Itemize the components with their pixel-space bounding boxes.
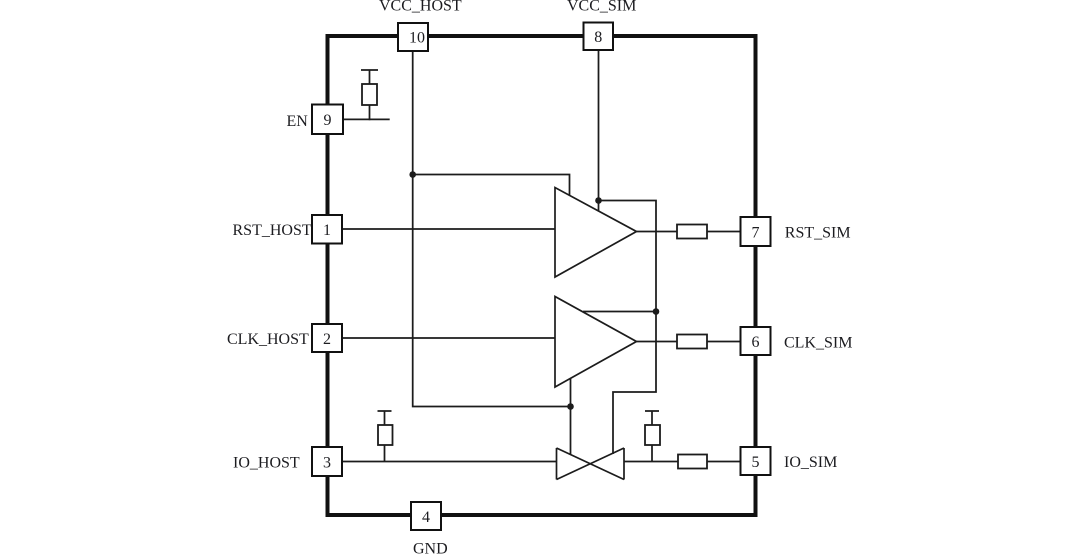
wire resistor R3 to pin 5 [707, 461, 741, 463]
svg-text:5: 5 [752, 454, 760, 471]
supply tee of IO_HOST pull-up [378, 410, 392, 412]
svg-text:IO_SIM: IO_SIM [784, 454, 837, 471]
svg-text:GND: GND [413, 541, 448, 555]
svg-text:8: 8 [594, 29, 602, 46]
wire VCC_HOST branch to buffer U1 top edge [413, 175, 570, 198]
svg-text:EN: EN [287, 113, 309, 130]
svg-text:CLK_HOST: CLK_HOST [227, 331, 309, 348]
resistor IO_HOST pull-up [378, 425, 393, 445]
wire EN pull-up resistor to EN stub [369, 105, 371, 120]
junction dot on VCC_SIM rail at U1 [595, 197, 602, 204]
svg-text:1: 1 [323, 222, 331, 239]
wire IO_HOST pull-up resistor to IO line [384, 445, 386, 462]
junction dot on VCC_SIM branch at U2 [653, 308, 660, 315]
junction dot on VCC_HOST rail [409, 171, 416, 178]
svg-text:RST_HOST: RST_HOST [233, 222, 312, 239]
wire tee to EN pull-up resistor [369, 70, 371, 84]
svg-text:7: 7 [752, 224, 760, 241]
supply tee of EN pull-up [361, 69, 378, 71]
pin 4 box [411, 502, 441, 530]
pin 2 box [312, 324, 342, 352]
pin 6 box [741, 327, 771, 355]
wire VCC_SIM rail from pin 8 down to buffer U1 top edge [598, 49, 600, 211]
wire buffer U1 output to resistor R1 [637, 231, 678, 233]
svg-text:4: 4 [422, 509, 430, 526]
pin 8 box [584, 23, 614, 51]
pin 10 box [398, 23, 428, 51]
wire buffer U2 output to resistor R2 [637, 341, 678, 343]
wire tee to IO_HOST pull-up resistor [384, 411, 386, 425]
svg-text:9: 9 [324, 112, 332, 129]
wire pin 2 to buffer U2 input [342, 337, 555, 339]
wire EN stub from pin 9 [344, 118, 390, 120]
wire from buffer U2 bottom edge down to transceiver left input [570, 378, 572, 456]
buffer U1 (RST level shifter) [555, 188, 637, 278]
pin 3 box [312, 447, 342, 476]
svg-text:RST_SIM: RST_SIM [785, 224, 851, 241]
resistor IO_SIM pull-up [645, 425, 660, 445]
wire tee to IO_SIM pull-up resistor [651, 411, 653, 425]
pin 7 box [741, 217, 771, 246]
wire VCC_HOST rail from pin 10 down and right to CLK bottom rail [413, 51, 571, 407]
wire VCC_SIM branch right and down to transceiver [599, 201, 657, 455]
svg-text:IO_HOST: IO_HOST [233, 455, 300, 472]
junction dot on VCC_HOST rail at transceiver feed [567, 403, 574, 410]
svg-text:6: 6 [752, 334, 760, 351]
svg-text:3: 3 [323, 454, 331, 471]
svg-text:2: 2 [323, 331, 331, 348]
wire pin 3 to transceiver left edge [342, 461, 557, 463]
transceiver U3 (bidirectional IO) [557, 448, 625, 480]
supply tee of IO_SIM pull-up [645, 410, 659, 412]
pin 1 box [312, 215, 342, 244]
resistor R1 (RST series) [677, 225, 707, 239]
resistor R2 (CLK series) [677, 335, 707, 349]
chip outline (IC body border) [328, 36, 756, 515]
svg-text:CLK_SIM: CLK_SIM [784, 334, 852, 351]
resistor EN pull-up [362, 84, 377, 105]
wire IO_SIM pull-up resistor to IO line [651, 445, 653, 462]
wire resistor R1 to pin 7 [707, 231, 741, 233]
wire transceiver right edge to resistor R3 [624, 461, 678, 463]
wire pin 1 to buffer U1 input [342, 228, 555, 230]
resistor R3 (IO series) [678, 455, 707, 469]
pin 5 box [741, 447, 771, 475]
pin 9 box [312, 105, 343, 135]
buffer U2 (CLK level shifter) [555, 297, 637, 388]
svg-text:VCC_SIM: VCC_SIM [567, 0, 636, 15]
wire VCC_SIM branch to buffer U2 top edge [583, 311, 656, 313]
svg-text:VCC_HOST: VCC_HOST [379, 0, 462, 15]
svg-text:10: 10 [409, 30, 425, 47]
wire resistor R2 to pin 6 [707, 341, 741, 343]
